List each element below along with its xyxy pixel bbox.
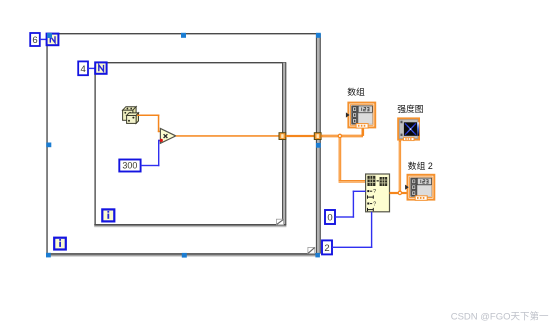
- constant 6: [30, 33, 40, 46]
- outer for-loop right border: [316, 34, 321, 254]
- wire dice to multiply (orange scalar): [137, 115, 161, 133]
- multiply node: [160, 129, 175, 144]
- svg-text:数组: 数组: [347, 86, 365, 97]
- array 2 indicator icon (数组 2): [405, 175, 434, 201]
- selection handle mid-left: [46, 143, 51, 148]
- inner for-loop left border: [94, 67, 96, 224]
- selection handle mid-right: [316, 143, 321, 148]
- outer loop resize dog-ear corner: [308, 247, 315, 253]
- svg-text:数组 2: 数组 2: [408, 160, 433, 171]
- wire 4 to N: [88, 68, 95, 69]
- wire inner tunnel to outer tunnel (1D array): [286, 135, 315, 137]
- inner for-loop right border: [282, 63, 286, 225]
- selection handle top-middle: [181, 33, 186, 38]
- wire 300 to multiply (blue): [141, 140, 162, 166]
- inner loop tunnel (auto-index): [279, 133, 286, 140]
- svg-text:300: 300: [122, 161, 137, 171]
- wire 6 to N: [40, 39, 47, 40]
- constant 4: [78, 61, 88, 75]
- wire index array output to junction 2 and array 2 (orange): [390, 192, 408, 194]
- svg-text:2: 2: [324, 243, 329, 254]
- 2D array wire: junction down to index array: [339, 138, 366, 183]
- intensity graph indicator icon (强度图): [398, 118, 419, 140]
- wire junction 1: [338, 134, 341, 137]
- wire junction 2: [398, 191, 401, 194]
- selection handle top-left: [47, 33, 52, 38]
- array indicator icon (数组): [346, 103, 375, 129]
- selection handle top-right: [316, 33, 321, 38]
- wire intensity graph down to junction 2 (orange): [399, 141, 401, 192]
- outer for-loop bottom border: [46, 253, 320, 256]
- outer loop i terminal: [54, 238, 66, 250]
- selection handle bottom-left: [46, 253, 51, 258]
- dice random number icon: [123, 107, 139, 124]
- svg-text:强度图: 强度图: [397, 103, 424, 114]
- coercion dot (red): [160, 139, 163, 142]
- constant 0: [325, 210, 335, 224]
- selection handle bottom-right: [315, 253, 320, 258]
- svg-text:6: 6: [32, 35, 37, 46]
- outer loop N terminal: [47, 34, 59, 46]
- index array node: [366, 174, 390, 212]
- svg-text:0: 0: [327, 213, 332, 224]
- inner for-loop top border: [104, 62, 286, 63]
- outer for-loop top border: [52, 33, 316, 34]
- svg-text:?: ?: [373, 189, 376, 195]
- wire 2 to index array (blue): [332, 212, 372, 248]
- outer loop tunnel (auto-index): [314, 133, 321, 140]
- inner loop i terminal: [102, 209, 114, 221]
- inner loop N terminal: [95, 62, 106, 73]
- outer for-loop left border: [46, 38, 48, 253]
- 2D array wire: outer tunnel to junction to array icon: [321, 128, 364, 137]
- wire multiply to inner tunnel: [176, 135, 279, 137]
- inner loop resize dog-ear corner: [276, 219, 283, 225]
- constant 300: [119, 160, 140, 172]
- selection handle bottom-middle: [182, 253, 187, 258]
- constant 2: [322, 240, 332, 254]
- inner for-loop bottom border: [94, 224, 286, 227]
- svg-text:?: ?: [373, 202, 376, 208]
- svg-text:CSDN @FGO天下第一: CSDN @FGO天下第一: [451, 311, 549, 323]
- wire 0 to index array (blue): [335, 191, 366, 218]
- svg-text:4: 4: [80, 64, 85, 75]
